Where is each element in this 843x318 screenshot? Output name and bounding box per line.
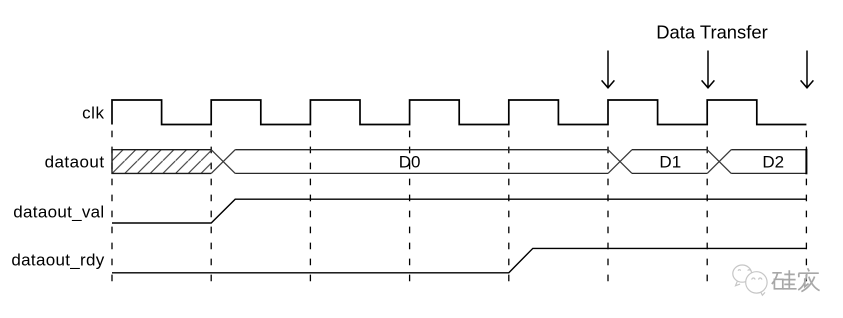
dataout unknown hatched region: [112, 150, 211, 173]
硅 stone radical: [772, 273, 783, 289]
watermark text 硅农 (drawn strokes): [772, 268, 820, 291]
dashed grid line at clk rising edge 3: [309, 131, 311, 288]
dashed grid line at clk rising edge 8: [805, 131, 807, 288]
svg-text:dataout_val: dataout_val: [13, 202, 104, 221]
arrow 1 (data transfer marker at clk edge 6): [602, 51, 615, 88]
dashed grid line at clk rising edge 2: [210, 131, 212, 288]
wire dataout_rdy waveform: [112, 248, 806, 272]
dataout transition X3: [707, 150, 731, 174]
svg-text:D1: D1: [659, 153, 681, 172]
硅 gui part: [783, 270, 797, 289]
svg-text:Data Transfer: Data Transfer: [656, 22, 767, 43]
dashed grid line at clk rising edge 4: [409, 131, 411, 288]
dashed grid line at clk rising edge 5: [508, 131, 510, 288]
wire clk waveform: [112, 100, 806, 125]
农: [798, 268, 819, 291]
wire dataout_val waveform: [112, 199, 806, 223]
dashed grid line at clk rising edge 6: [607, 131, 609, 288]
svg-text:dataout: dataout: [45, 153, 105, 172]
watermark logo chat bubbles: [733, 265, 767, 295]
dashed grid line at clk rising edge 7: [706, 131, 708, 288]
dashed grid line at clk rising edge 1: [111, 131, 113, 288]
dataout D0 cell: [235, 150, 608, 174]
dataout D1 cell: [632, 150, 707, 174]
svg-text:D2: D2: [762, 153, 784, 172]
svg-text:dataout_rdy: dataout_rdy: [11, 250, 104, 269]
dataout transition X2: [608, 150, 632, 174]
arrow 3 (data transfer marker at clk edge 8): [801, 51, 814, 88]
dataout transition X1: [211, 150, 235, 174]
dataout bus right end edge: [805, 149, 807, 175]
dataout D2 cell: [731, 150, 806, 174]
svg-text:D0: D0: [399, 153, 421, 172]
svg-text:clk: clk: [82, 103, 104, 122]
arrow 2 (data transfer marker at clk edge 7): [702, 51, 715, 88]
